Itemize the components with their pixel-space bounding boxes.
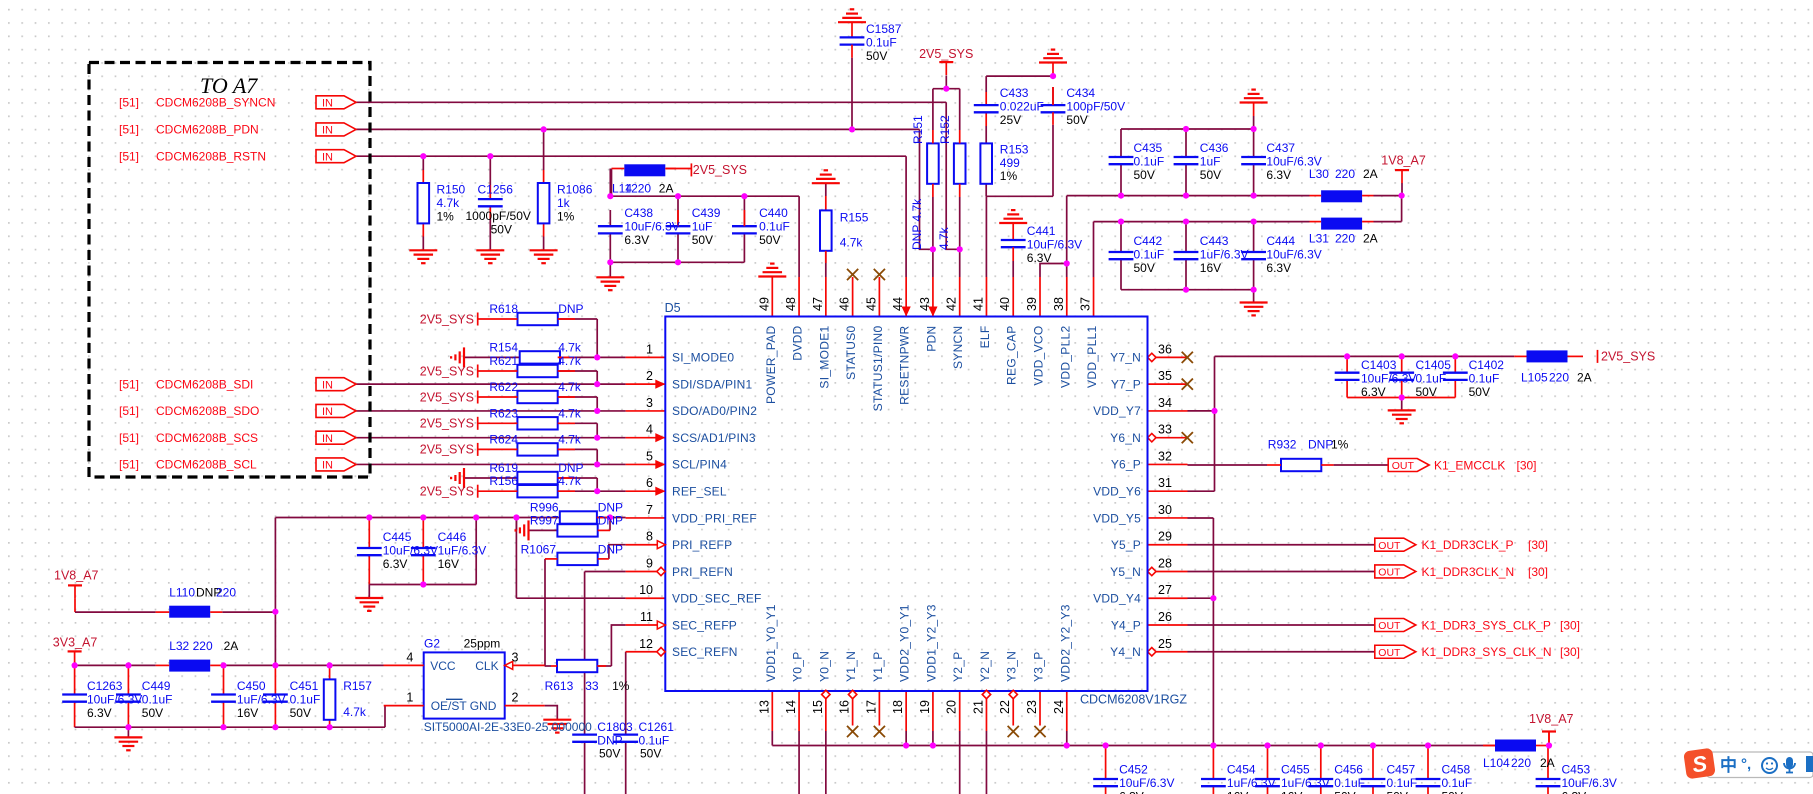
svg-text:2V5_SYS: 2V5_SYS	[420, 485, 474, 499]
svg-text:VDD_PLL1: VDD_PLL1	[1085, 325, 1099, 387]
svg-text:0.1uF: 0.1uF	[759, 219, 790, 233]
svg-text:6.3V: 6.3V	[1027, 251, 1052, 265]
svg-text:R152: R152	[938, 115, 952, 144]
svg-text:1%: 1%	[437, 209, 455, 223]
svg-text:VDD_PRI_REF: VDD_PRI_REF	[672, 511, 757, 525]
svg-text:R155: R155	[840, 211, 869, 225]
svg-text:GND: GND	[470, 699, 497, 713]
svg-text:Y4_P: Y4_P	[1111, 618, 1141, 632]
svg-text:C437: C437	[1266, 141, 1295, 155]
svg-text:38: 38	[1052, 297, 1066, 311]
svg-text:C445: C445	[383, 530, 412, 544]
svg-text:10uF/6.3V: 10uF/6.3V	[1119, 776, 1174, 790]
svg-text:REF_SEL: REF_SEL	[672, 485, 727, 499]
svg-text:17: 17	[864, 700, 878, 714]
svg-text:CDCM6208B_SDI: CDCM6208B_SDI	[156, 377, 253, 391]
svg-text:10uF/6.3V: 10uF/6.3V	[1266, 248, 1321, 262]
svg-text:21: 21	[971, 700, 985, 714]
svg-text:2V5_SYS: 2V5_SYS	[919, 47, 973, 61]
svg-text:R997: R997	[530, 513, 559, 527]
svg-text:R996: R996	[530, 500, 559, 514]
svg-text:50V: 50V	[1066, 113, 1087, 127]
svg-text:1uF/6.3V: 1uF/6.3V	[1281, 776, 1330, 790]
svg-text:VDD_PLL2: VDD_PLL2	[1058, 325, 1072, 387]
svg-text:44: 44	[891, 297, 905, 311]
svg-text:14: 14	[784, 700, 798, 714]
svg-text:C1405: C1405	[1416, 358, 1452, 372]
svg-text:16V: 16V	[237, 706, 258, 720]
svg-text:49: 49	[757, 297, 771, 311]
svg-text:[51]: [51]	[119, 431, 139, 445]
svg-text:VDD_Y7: VDD_Y7	[1093, 404, 1141, 418]
svg-text:CLK: CLK	[475, 659, 498, 673]
svg-text:19: 19	[918, 700, 932, 714]
svg-text:VDD2_Y0_Y1: VDD2_Y0_Y1	[898, 604, 912, 682]
svg-text:C1803: C1803	[597, 720, 633, 734]
svg-text:1000pF/50V: 1000pF/50V	[466, 209, 531, 223]
svg-text:VDD_Y6: VDD_Y6	[1093, 485, 1141, 499]
svg-text:48: 48	[784, 297, 798, 311]
svg-text:1uF/6.3V: 1uF/6.3V	[1227, 776, 1276, 790]
svg-text:K1_DDR3_SYS_CLK_N: K1_DDR3_SYS_CLK_N	[1422, 645, 1552, 659]
svg-text:42: 42	[945, 297, 959, 311]
svg-text:1uF: 1uF	[692, 219, 713, 233]
svg-text:2V5_SYS: 2V5_SYS	[420, 417, 474, 431]
svg-text:C438: C438	[624, 206, 653, 220]
svg-text:G2: G2	[424, 637, 440, 651]
svg-text:50V: 50V	[290, 706, 311, 720]
svg-text:10uF/6.3V: 10uF/6.3V	[87, 692, 142, 706]
svg-text:STATUS0: STATUS0	[844, 325, 858, 379]
svg-text:50V: 50V	[1387, 790, 1408, 794]
svg-text:L32: L32	[169, 639, 189, 653]
svg-text:SCS/AD1/PIN3: SCS/AD1/PIN3	[672, 431, 756, 445]
svg-text:18: 18	[891, 700, 905, 714]
svg-text:[30]: [30]	[1560, 618, 1580, 632]
svg-text:50V: 50V	[866, 49, 887, 63]
svg-text:220: 220	[1549, 371, 1569, 385]
svg-text:C436: C436	[1200, 141, 1229, 155]
svg-text:PRI_REFN: PRI_REFN	[672, 565, 733, 579]
svg-text:RESETNPWR: RESETNPWR	[898, 325, 912, 404]
svg-text:C1402: C1402	[1469, 358, 1505, 372]
svg-text:OUT: OUT	[1378, 647, 1401, 659]
svg-text:SEC_REFN: SEC_REFN	[672, 645, 738, 659]
svg-text:50V: 50V	[1416, 385, 1437, 399]
svg-text:0.1uF: 0.1uF	[1387, 776, 1418, 790]
svg-text:C454: C454	[1227, 763, 1256, 777]
svg-text:C443: C443	[1200, 234, 1229, 248]
svg-text:R1086: R1086	[557, 183, 593, 197]
svg-text:16V: 16V	[1227, 790, 1248, 794]
svg-text:ELF: ELF	[978, 326, 992, 349]
svg-text:220: 220	[216, 586, 236, 600]
svg-text:C449: C449	[142, 679, 171, 693]
svg-text:R623: R623	[489, 406, 518, 420]
svg-text:2V5_SYS: 2V5_SYS	[1601, 350, 1655, 364]
svg-text:CDCM6208V1RGZ: CDCM6208V1RGZ	[1080, 693, 1187, 707]
svg-text:0.1uF: 0.1uF	[142, 692, 173, 706]
svg-text:DNP: DNP	[558, 461, 583, 475]
svg-text:R621: R621	[489, 354, 518, 368]
svg-text:37: 37	[1079, 297, 1093, 311]
svg-text:0.1uF: 0.1uF	[1334, 776, 1365, 790]
svg-text:6.3V: 6.3V	[383, 557, 408, 571]
svg-text:16V: 16V	[1281, 790, 1302, 794]
svg-text:[30]: [30]	[1528, 565, 1548, 579]
svg-text:50V: 50V	[491, 223, 512, 237]
svg-text:16: 16	[838, 700, 852, 714]
svg-text:0.1uF: 0.1uF	[866, 35, 897, 49]
svg-text:1: 1	[406, 691, 413, 705]
svg-text:IN: IN	[322, 125, 333, 137]
svg-text:100pF/50V: 100pF/50V	[1066, 99, 1125, 113]
svg-text:R151: R151	[911, 115, 925, 144]
svg-text:50V: 50V	[640, 747, 661, 761]
svg-text:Y5_P: Y5_P	[1111, 538, 1141, 552]
svg-text:Y3_N: Y3_N	[1005, 651, 1019, 682]
svg-text:6: 6	[646, 476, 653, 490]
svg-text:SEC_REFP: SEC_REFP	[672, 618, 737, 632]
svg-text:0.1uF: 0.1uF	[1469, 371, 1500, 385]
svg-text:6.3V: 6.3V	[1361, 385, 1386, 399]
svg-text:OUT: OUT	[1378, 567, 1401, 579]
svg-text:PRI_REFP: PRI_REFP	[672, 538, 732, 552]
svg-text:CDCM6208B_RSTN: CDCM6208B_RSTN	[156, 150, 266, 164]
svg-text:R624: R624	[489, 432, 518, 446]
svg-text:OE/ST: OE/ST	[431, 699, 468, 713]
svg-text:24: 24	[1052, 700, 1066, 714]
svg-text:C453: C453	[1562, 763, 1591, 777]
svg-text:DNP: DNP	[558, 302, 583, 316]
svg-text:DNP: DNP	[597, 733, 622, 747]
svg-text:1uF/6.3V: 1uF/6.3V	[237, 692, 286, 706]
svg-text:C452: C452	[1119, 763, 1148, 777]
svg-text:C1256: C1256	[478, 183, 514, 197]
svg-text:2A: 2A	[1363, 232, 1378, 246]
svg-text:2V5_SYS: 2V5_SYS	[420, 312, 474, 326]
svg-text:7: 7	[646, 503, 653, 517]
svg-text:2V5_SYS: 2V5_SYS	[420, 443, 474, 457]
svg-text:1: 1	[646, 342, 653, 356]
svg-text:DVDD: DVDD	[791, 325, 805, 360]
svg-text:2V5_SYS: 2V5_SYS	[420, 390, 474, 404]
svg-text:2A: 2A	[1363, 167, 1378, 181]
svg-text:DNP: DNP	[598, 543, 623, 557]
svg-text:SI_MODE0: SI_MODE0	[672, 351, 734, 365]
svg-text:L104: L104	[1483, 756, 1510, 770]
svg-text:SIT5000AI-2E-33E0-25.000000: SIT5000AI-2E-33E0-25.000000	[424, 720, 592, 734]
svg-text:SDO/AD0/PIN2: SDO/AD0/PIN2	[672, 404, 757, 418]
svg-text:Y1_N: Y1_N	[844, 651, 858, 682]
svg-text:Y6_N: Y6_N	[1110, 431, 1141, 445]
svg-text:2V5_SYS: 2V5_SYS	[420, 364, 474, 378]
svg-text:C1261: C1261	[639, 720, 675, 734]
svg-text:VDD1_Y0_Y1: VDD1_Y0_Y1	[764, 604, 778, 682]
svg-text:C1263: C1263	[87, 679, 123, 693]
svg-text:C442: C442	[1134, 234, 1163, 248]
svg-text:[51]: [51]	[119, 458, 139, 472]
svg-text:28: 28	[1158, 556, 1172, 570]
svg-text:50V: 50V	[1334, 790, 1355, 794]
svg-text:25ppm: 25ppm	[464, 637, 501, 651]
svg-text:6.3V: 6.3V	[1266, 261, 1291, 275]
svg-text:IN: IN	[322, 151, 333, 163]
svg-text:IN: IN	[322, 460, 333, 472]
svg-text:220: 220	[1335, 232, 1355, 246]
svg-text:2A: 2A	[224, 639, 239, 653]
svg-text:2: 2	[646, 369, 653, 383]
svg-text:8: 8	[646, 530, 653, 544]
svg-text:0.022uF: 0.022uF	[1000, 99, 1044, 113]
svg-text:[51]: [51]	[119, 123, 139, 137]
svg-text:0.1uF: 0.1uF	[639, 733, 670, 747]
svg-text:36: 36	[1158, 342, 1172, 356]
svg-text:°,: °,	[1741, 756, 1751, 773]
svg-text:POWER_PAD: POWER_PAD	[764, 325, 778, 404]
svg-text:50V: 50V	[1200, 168, 1221, 182]
svg-text:C444: C444	[1266, 234, 1295, 248]
svg-text:6.3V: 6.3V	[87, 706, 112, 720]
svg-text:STATUS1/PIN0: STATUS1/PIN0	[871, 325, 885, 411]
svg-text:50V: 50V	[1134, 168, 1155, 182]
svg-text:50V: 50V	[142, 706, 163, 720]
svg-text:Y6_P: Y6_P	[1111, 458, 1141, 472]
svg-text:DNP: DNP	[598, 500, 623, 514]
svg-text:SYNCN: SYNCN	[951, 326, 965, 370]
svg-text:R156: R156	[489, 474, 518, 488]
svg-text:0.1uF: 0.1uF	[1442, 776, 1473, 790]
svg-text:4.7k: 4.7k	[558, 406, 582, 420]
svg-text:C450: C450	[237, 679, 266, 693]
svg-text:25: 25	[1158, 637, 1172, 651]
svg-text:35: 35	[1158, 369, 1172, 383]
svg-text:C1587: C1587	[866, 22, 902, 36]
svg-text:VDD1_Y2_Y3: VDD1_Y2_Y3	[924, 604, 938, 682]
svg-text:C455: C455	[1281, 763, 1310, 777]
svg-text:CDCM6208B_SCS: CDCM6208B_SCS	[156, 431, 258, 445]
svg-text:2: 2	[512, 691, 519, 705]
svg-text:VDD_SEC_REF: VDD_SEC_REF	[672, 592, 762, 606]
svg-text:CDCM6208B_SCL: CDCM6208B_SCL	[156, 458, 257, 472]
svg-text:31: 31	[1158, 476, 1172, 490]
svg-text:50V: 50V	[1442, 790, 1463, 794]
svg-text:0.1uF: 0.1uF	[1134, 248, 1165, 262]
svg-text:220: 220	[1511, 756, 1531, 770]
svg-text:10uF/6.3V: 10uF/6.3V	[1361, 371, 1416, 385]
svg-text:0.1uF: 0.1uF	[290, 692, 321, 706]
svg-text:C435: C435	[1134, 141, 1163, 155]
svg-text:1uF/6.3V: 1uF/6.3V	[438, 543, 487, 557]
svg-text:1V8_A7: 1V8_A7	[1529, 712, 1574, 726]
svg-text:4.7k: 4.7k	[558, 340, 582, 354]
svg-text:4.7k: 4.7k	[558, 354, 582, 368]
svg-text:0.1uF: 0.1uF	[1134, 154, 1165, 168]
svg-text:R932: R932	[1268, 438, 1297, 452]
svg-text:Y7_P: Y7_P	[1111, 377, 1141, 391]
svg-text:4: 4	[406, 651, 413, 665]
svg-text:[51]: [51]	[119, 150, 139, 164]
svg-text:Y3_P: Y3_P	[1032, 651, 1046, 682]
svg-text:Y1_P: Y1_P	[871, 651, 885, 682]
svg-text:R613: R613	[545, 679, 574, 693]
svg-text:DNP: DNP	[598, 513, 623, 527]
svg-text:IN: IN	[322, 406, 333, 418]
svg-text:13: 13	[757, 700, 771, 714]
svg-text:6.3V: 6.3V	[1266, 168, 1291, 182]
svg-text:4.7k: 4.7k	[437, 196, 461, 210]
svg-text:R157: R157	[343, 679, 372, 693]
svg-text:R619: R619	[489, 461, 518, 475]
svg-text:2V5_SYS: 2V5_SYS	[693, 163, 747, 177]
svg-text:1%: 1%	[557, 209, 575, 223]
svg-text:IN: IN	[322, 433, 333, 445]
svg-text:CDCM6208B_SYNCN: CDCM6208B_SYNCN	[156, 96, 275, 110]
svg-text:[51]: [51]	[119, 96, 139, 110]
svg-text:2A: 2A	[1577, 371, 1592, 385]
svg-text:OUT: OUT	[1392, 460, 1415, 472]
svg-text:3: 3	[512, 651, 519, 665]
svg-text:47: 47	[811, 297, 825, 311]
svg-text:C1403: C1403	[1361, 358, 1397, 372]
svg-text:10uF/6.3V: 10uF/6.3V	[1027, 237, 1082, 251]
svg-text:Y0_N: Y0_N	[817, 651, 831, 682]
svg-text:[30]: [30]	[1517, 458, 1537, 472]
svg-text:4.7k: 4.7k	[937, 226, 951, 250]
svg-text:IN: IN	[322, 379, 333, 391]
svg-text:VDD2_Y2_Y3: VDD2_Y2_Y3	[1058, 604, 1072, 682]
svg-text:OUT: OUT	[1378, 540, 1401, 552]
svg-text:27: 27	[1158, 583, 1172, 597]
svg-text:10uF/6.3V: 10uF/6.3V	[383, 543, 438, 557]
svg-text:26: 26	[1158, 610, 1172, 624]
svg-text:50V: 50V	[1469, 385, 1490, 399]
svg-text:R150: R150	[437, 183, 466, 197]
svg-text:OUT: OUT	[1378, 620, 1401, 632]
svg-text:[30]: [30]	[1528, 538, 1548, 552]
svg-text:C439: C439	[692, 206, 721, 220]
svg-text:4.7k: 4.7k	[558, 432, 582, 446]
svg-text:10: 10	[639, 583, 653, 597]
svg-text:C456: C456	[1334, 763, 1363, 777]
svg-text:CDCM6208B_SDO: CDCM6208B_SDO	[156, 404, 259, 418]
svg-text:VCC: VCC	[430, 659, 456, 673]
svg-text:SCL/PIN4: SCL/PIN4	[672, 458, 727, 472]
svg-text:1uF: 1uF	[1200, 154, 1221, 168]
svg-text:4.7k: 4.7k	[558, 380, 582, 394]
svg-text:1V8_A7: 1V8_A7	[1381, 153, 1426, 167]
svg-text:Y5_N: Y5_N	[1110, 565, 1141, 579]
svg-text:25V: 25V	[1000, 113, 1021, 127]
svg-text:C446: C446	[438, 530, 467, 544]
svg-text:6.3V: 6.3V	[1119, 790, 1144, 794]
svg-text:29: 29	[1158, 530, 1172, 544]
svg-text:C457: C457	[1387, 763, 1416, 777]
svg-text:2A: 2A	[1540, 756, 1555, 770]
svg-text:4.7k: 4.7k	[840, 236, 864, 250]
svg-text:K1_EMCCLK: K1_EMCCLK	[1434, 458, 1505, 472]
svg-text:45: 45	[864, 297, 878, 311]
svg-text:中: 中	[1720, 755, 1737, 775]
svg-text:40: 40	[998, 297, 1012, 311]
svg-text:0.1uF: 0.1uF	[1416, 371, 1447, 385]
svg-text:9: 9	[646, 556, 653, 570]
svg-text:SDI/SDA/PIN1: SDI/SDA/PIN1	[672, 377, 753, 391]
svg-text:6.3V: 6.3V	[1562, 790, 1587, 794]
svg-text:12: 12	[639, 637, 653, 651]
svg-text:1k: 1k	[557, 196, 571, 210]
svg-text:R154: R154	[489, 340, 518, 354]
svg-text:REG_CAP: REG_CAP	[1005, 326, 1019, 385]
svg-text:33: 33	[585, 679, 599, 693]
svg-text:R622: R622	[489, 380, 518, 394]
svg-text:C434: C434	[1066, 86, 1095, 100]
svg-text:4.7k: 4.7k	[343, 705, 367, 719]
svg-text:L110: L110	[169, 586, 195, 600]
svg-text:R1067: R1067	[521, 543, 557, 557]
svg-text:20: 20	[945, 700, 959, 714]
svg-text:L105: L105	[1521, 371, 1548, 385]
svg-text:1V8_A7: 1V8_A7	[54, 569, 99, 583]
svg-text:TO A7: TO A7	[200, 73, 258, 98]
svg-text:[51]: [51]	[119, 404, 139, 418]
svg-text:15: 15	[811, 700, 825, 714]
svg-text:30: 30	[1158, 503, 1172, 517]
svg-text:10uF/6.3V: 10uF/6.3V	[624, 219, 679, 233]
svg-text:C458: C458	[1442, 763, 1471, 777]
svg-text:DNP: DNP	[1308, 438, 1333, 452]
svg-text:Y2_N: Y2_N	[978, 651, 992, 682]
svg-text:C451: C451	[290, 679, 319, 693]
svg-text:4: 4	[646, 423, 653, 437]
svg-text:C441: C441	[1027, 224, 1056, 238]
svg-text:50V: 50V	[1134, 261, 1155, 275]
svg-text:6.3V: 6.3V	[624, 233, 649, 247]
svg-text:VDD_Y4: VDD_Y4	[1093, 592, 1141, 606]
svg-text:VDD_VCO: VDD_VCO	[1032, 326, 1046, 386]
svg-text:23: 23	[1025, 700, 1039, 714]
svg-text:4.7k: 4.7k	[558, 474, 582, 488]
svg-text:50V: 50V	[692, 233, 713, 247]
svg-text:34: 34	[1158, 396, 1172, 410]
svg-text:50V: 50V	[599, 747, 620, 761]
svg-text:39: 39	[1025, 297, 1039, 311]
svg-text:SI_MODE1: SI_MODE1	[817, 325, 831, 388]
svg-text:1uF/6.3V: 1uF/6.3V	[1200, 248, 1249, 262]
svg-text:C440: C440	[759, 206, 788, 220]
svg-text:43: 43	[918, 297, 932, 311]
svg-text:16V: 16V	[1200, 261, 1221, 275]
svg-text:R153: R153	[1000, 142, 1029, 156]
svg-text:22: 22	[998, 700, 1012, 714]
svg-text:46: 46	[838, 297, 852, 311]
svg-text:Y2_P: Y2_P	[951, 651, 965, 682]
svg-text:3V3_A7: 3V3_A7	[53, 635, 98, 649]
svg-text:[51]: [51]	[119, 377, 139, 391]
svg-text:3: 3	[646, 396, 653, 410]
svg-text:Y4_N: Y4_N	[1110, 645, 1141, 659]
svg-text:CDCM6208B_PDN: CDCM6208B_PDN	[156, 123, 259, 137]
svg-text:33: 33	[1158, 423, 1172, 437]
svg-text:VDD_Y5: VDD_Y5	[1093, 511, 1141, 525]
svg-text:1%: 1%	[1000, 169, 1018, 183]
svg-text:DNP 4.7k: DNP 4.7k	[910, 198, 924, 250]
svg-text:D5: D5	[665, 301, 681, 315]
svg-text:11: 11	[640, 610, 653, 624]
svg-text:R618: R618	[489, 302, 518, 316]
svg-text:50V: 50V	[759, 233, 780, 247]
svg-text:PDN: PDN	[924, 326, 938, 352]
